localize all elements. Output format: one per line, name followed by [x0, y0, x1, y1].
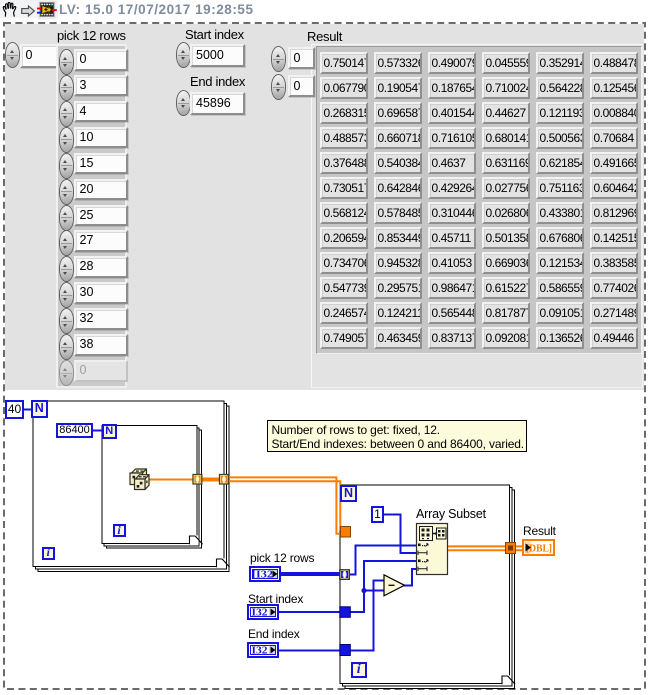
Result cell r3c1: [320, 102, 369, 124]
Start index I32 terminal: [247, 604, 279, 620]
Result cell r12c6: [590, 327, 639, 349]
svg-text:[DBL]: [DBL]: [526, 543, 552, 555]
Result cell r4c4: [482, 127, 531, 149]
dog-ear right loop: [502, 676, 511, 685]
Result cell r10c5: [536, 277, 585, 299]
orange bracket tunnels: [193, 475, 228, 485]
Result cell r11c4: [482, 302, 531, 324]
Result cell r2c2: [374, 77, 423, 99]
pick 12 rows terminal label: [250, 551, 314, 565]
Result cell r11c2: [374, 302, 423, 324]
Result cell r4c6: [590, 127, 639, 149]
inner loop N: [102, 424, 117, 439]
outer loop N: [31, 400, 48, 418]
Result cell r1c4: [482, 52, 531, 74]
Result cell r7c2: [374, 202, 423, 224]
Result cell r11c3: [428, 302, 477, 324]
Result cell r9c1: [320, 252, 369, 274]
operate-tool hand icon: [1, 1, 18, 18]
Result cell r12c5: [536, 327, 585, 349]
constant 1: [371, 506, 384, 523]
pick12 element 7 value 27: [60, 231, 73, 255]
right loop N: [340, 485, 357, 502]
Result cell r4c5: [536, 127, 585, 149]
pick 12 rows I32 array terminal: [249, 566, 281, 582]
Result cell r1c5: [536, 52, 585, 74]
Result cell r5c6: [590, 152, 639, 174]
Result cell r5c4: [482, 152, 531, 174]
Result cell r7c1: [320, 202, 369, 224]
svg-text:I32: I32: [252, 645, 269, 657]
Array Subset node: [417, 524, 448, 575]
pick12 element 1 value 3: [60, 76, 73, 100]
pick12 disabled element: [60, 361, 73, 385]
Result cell r8c6: [590, 227, 639, 249]
blue wires: [24, 410, 418, 651]
Result cell r9c4: [482, 252, 531, 274]
outer loop i: [42, 547, 55, 560]
Result cell r10c3: [428, 277, 477, 299]
Result cell r1c1: [320, 52, 369, 74]
Result cell r8c5: [536, 227, 585, 249]
Result cell r2c3: [428, 77, 477, 99]
Result cell r7c6: [590, 202, 639, 224]
junction dot: [361, 588, 366, 593]
pick12 element 0 value 0: [60, 50, 73, 74]
Result cell r6c2: [374, 177, 423, 199]
Result cell r9c6: [590, 252, 639, 274]
pick12 element 2 value 4: [60, 102, 73, 126]
Result cell r4c2: [374, 127, 423, 149]
node input glyphs: [418, 544, 428, 572]
Result cell r7c4: [482, 202, 531, 224]
pick12 element 8 value 28: [60, 257, 73, 281]
Result cell r10c6: [590, 277, 639, 299]
Result cell r6c3: [428, 177, 477, 199]
Result cell r3c2: [374, 102, 423, 124]
svg-text:[I32: [I32: [252, 569, 274, 581]
svg-text:I32: I32: [252, 607, 269, 619]
Result cell r6c4: [482, 177, 531, 199]
Result cell r3c3: [428, 102, 477, 124]
solid orange out tunnel: [506, 543, 516, 554]
right for-loop stacked frames: [345, 490, 515, 689]
comment box: [267, 420, 527, 452]
Result cell r12c2: [374, 327, 423, 349]
front panel background: [5, 24, 644, 390]
Result cell r7c3: [428, 202, 477, 224]
Result cell r8c3: [428, 227, 477, 249]
Result cell r5c5: [536, 152, 585, 174]
Result cell r6c5: [536, 177, 585, 199]
Result index display 2: [272, 75, 285, 99]
Result cell r9c5: [536, 252, 585, 274]
Result cell r5c3: [428, 152, 477, 174]
Result cell r1c3: [428, 52, 477, 74]
pick12 element 10 value 32: [60, 309, 73, 333]
Result cell r11c6: [590, 302, 639, 324]
dog-ear inner loop: [190, 536, 199, 545]
Start index control: [177, 43, 190, 67]
Result cell r2c1: [320, 77, 369, 99]
constant 86400: [56, 423, 93, 438]
Result cell r10c4: [482, 277, 531, 299]
pick12 element 5 value 20: [60, 180, 73, 204]
Result index display 1: [272, 47, 285, 71]
pick12 index display spin: [6, 43, 19, 67]
Result cell r4c1: [320, 127, 369, 149]
subtract triangle: [384, 575, 405, 596]
Result cell r12c3: [428, 327, 477, 349]
End index control: [177, 91, 190, 115]
2D array wire node to result tunnel: [447, 546, 523, 550]
Result cell r10c2: [374, 277, 423, 299]
Result cell r6c1: [320, 177, 369, 199]
dice icon: [130, 469, 149, 490]
Result cell r9c3: [428, 252, 477, 274]
pick12 element 9 value 30: [60, 283, 73, 307]
pick12 element 6 value 25: [60, 206, 73, 230]
Result cell r9c2: [374, 252, 423, 274]
dog-ear outer loop: [217, 559, 226, 568]
block diagram structures and wires: [0, 390, 649, 695]
thick 1D blue wire pick12: [280, 572, 341, 576]
right loop i: [351, 662, 367, 678]
Result cell r2c4: [482, 77, 531, 99]
solid orange in tunnel: [341, 527, 351, 538]
Result DBL array indicator terminal: [522, 539, 555, 556]
pick12 element 11 value 38: [60, 335, 73, 359]
constant 40: [5, 400, 24, 419]
Start index terminal label: [248, 592, 303, 606]
dice wire (scalar DBL): [149, 479, 193, 481]
End index terminal label: [248, 627, 300, 641]
pick12 element 3 value 10: [60, 128, 73, 152]
Result cell r5c2: [374, 152, 423, 174]
2D array wire outer-loop to right-loop: [228, 477, 342, 533]
Result cell r1c6: [590, 52, 639, 74]
Result cell r6c6: [590, 177, 639, 199]
Result cell r8c4: [482, 227, 531, 249]
inner for-loop stacked frames: [107, 430, 202, 548]
Result cell r2c5: [536, 77, 585, 99]
Result cell r3c6: [590, 102, 639, 124]
Result cell r1c2: [374, 52, 423, 74]
pick 12 rows array container: [56, 44, 127, 388]
solid blue tunnels: [340, 607, 351, 618]
outer for-loop stacked frames: [38, 406, 229, 572]
inner loop i: [113, 524, 126, 537]
Result cell r11c1: [320, 302, 369, 324]
LabVIEW VI snippet icon: [37, 0, 57, 20]
Result array container: [311, 44, 643, 388]
pick12 index display value 0: [20, 44, 60, 68]
Result cell r7c5: [536, 202, 585, 224]
Result cell r10c1: [320, 277, 369, 299]
Result cell r3c4: [482, 102, 531, 124]
Result label: [523, 524, 556, 538]
Result cell r3c5: [536, 102, 585, 124]
Array Subset label: [416, 507, 486, 521]
Result cell r12c1: [320, 327, 369, 349]
Result cell r12c4: [482, 327, 531, 349]
End index I32 terminal: [247, 642, 279, 658]
Result cell r11c5: [536, 302, 585, 324]
Result cell r8c1: [320, 227, 369, 249]
blue bracket tunnel (pick12 in): [340, 570, 350, 580]
pick12 element 4 value 15: [60, 154, 73, 178]
Result cell r5c1: [320, 152, 369, 174]
run arrow icon: [21, 5, 35, 17]
Result cell r8c2: [374, 227, 423, 249]
Result cell r4c3: [428, 127, 477, 149]
1D array wire between loop tunnels: [200, 478, 221, 482]
Result cell r2c6: [590, 77, 639, 99]
